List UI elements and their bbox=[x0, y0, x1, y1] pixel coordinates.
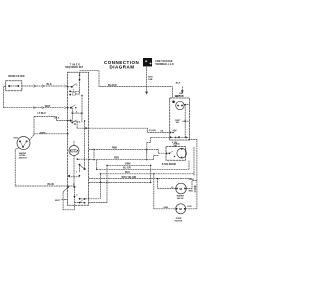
svg-text:3 ORN: 3 ORN bbox=[195, 185, 197, 192]
svg-text:1 BLK: 1 BLK bbox=[54, 118, 60, 120]
svg-text:BL-GR: BL-GR bbox=[123, 167, 131, 170]
timer interior: top contact cluster bbox=[67, 72, 81, 121]
wire band L4 BL-GR bbox=[97, 161, 189, 170]
svg-text:BLUE: BLUE bbox=[48, 183, 55, 186]
motor box right edge extension bbox=[193, 147, 195, 176]
svg-text:RED: RED bbox=[189, 191, 194, 193]
svg-text:WHT: WHT bbox=[55, 200, 61, 202]
wire A exit (timer to motor box upper) bbox=[77, 127, 92, 129]
wire band L6 WT3-YEL/OR bbox=[89, 176, 192, 179]
svg-text:GY/OR: GY/OR bbox=[149, 130, 156, 132]
svg-text:TERMINAL L1-N: TERMINAL L1-N bbox=[155, 63, 174, 66]
timer bottom contact cluster bbox=[63, 184, 86, 210]
ground lead wire from terminal block bbox=[145, 67, 153, 95]
timer bottom exits to right bbox=[86, 199, 108, 203]
svg-text:LT-BLU: LT-BLU bbox=[38, 112, 47, 115]
svg-text:WHT: WHT bbox=[189, 179, 195, 181]
wire band L3 ORN bbox=[107, 163, 151, 166]
svg-text:RED: RED bbox=[114, 157, 119, 160]
svg-text:BLU: BLU bbox=[125, 171, 130, 174]
svg-text:BLK: BLK bbox=[47, 83, 52, 86]
motor box bbox=[160, 95, 197, 209]
timer motor bbox=[69, 141, 79, 187]
timer interior: WHT input contact bbox=[68, 105, 77, 109]
svg-text:DIAGRAM: DIAGRAM bbox=[110, 65, 135, 70]
solenoid coil circle bbox=[177, 148, 187, 158]
pump motor circle bbox=[154, 204, 197, 223]
svg-text:SEQUENCE SET: SEQUENCE SET bbox=[65, 67, 84, 69]
wire BLACK from timer top to motor box bbox=[80, 71, 173, 98]
timer interior: middle cluster bbox=[68, 108, 83, 129]
svg-text:MOTOR: MOTOR bbox=[175, 95, 184, 98]
water level switch bbox=[13, 137, 30, 160]
band jumper verticals bbox=[93, 149, 158, 209]
wire WHT loop from filter left side bbox=[3, 87, 66, 110]
timer box bbox=[68, 72, 89, 205]
water valve solenoid circle bbox=[157, 179, 197, 200]
svg-text:CAB: CAB bbox=[148, 78, 153, 81]
solenoid assembly labels bbox=[173, 142, 181, 147]
svg-text:MOTOR: MOTOR bbox=[70, 152, 78, 154]
timer interior: lower contacts bbox=[68, 95, 91, 177]
wire BLK from filter to timer bbox=[22, 83, 68, 87]
timer label bbox=[65, 65, 84, 70]
wire band L1 PNK bbox=[89, 147, 159, 161]
LT-BLU wire from water level sw bbox=[34, 112, 68, 136]
svg-text:BLACK: BLACK bbox=[108, 84, 117, 87]
terminal block (black box) bbox=[143, 58, 152, 66]
wire band L5 BLU bbox=[100, 171, 194, 174]
wire band L7 bbox=[89, 181, 151, 183]
svg-text:WHT: WHT bbox=[45, 105, 51, 108]
svg-text:PNK: PNK bbox=[112, 147, 117, 150]
solenoid feed jogs bbox=[154, 149, 165, 159]
svg-text:NOISE FILTER: NOISE FILTER bbox=[8, 75, 25, 78]
water level switch wire to timer bbox=[29, 132, 68, 141]
wire from water level sw down and along bottom bbox=[15, 148, 74, 186]
wire A jog into motor box bbox=[92, 128, 170, 132]
svg-text:BLK: BLK bbox=[176, 83, 181, 85]
wire band L2 RED bbox=[89, 157, 154, 160]
noise filter box bbox=[6, 81, 22, 91]
wire WHT stub left of timer bottom bbox=[55, 200, 68, 202]
svg-text:SW: SW bbox=[176, 122, 179, 124]
wire B into motor box bbox=[147, 137, 170, 154]
title CONNECTION DIAGRAM bbox=[104, 60, 139, 69]
svg-text:SWITCH: SWITCH bbox=[19, 158, 28, 160]
solenoid assembly box bbox=[166, 147, 187, 161]
label: line voltage note bbox=[155, 60, 174, 66]
svg-text:4GRN: 4GRN bbox=[40, 132, 46, 135]
motor start winding circle bbox=[176, 101, 184, 109]
svg-text:1M: 1M bbox=[160, 131, 163, 133]
svg-text:GYR: GYR bbox=[187, 206, 192, 208]
svg-text:GRN: GRN bbox=[163, 207, 168, 209]
svg-text:MOTOR: MOTOR bbox=[175, 220, 183, 222]
svg-text:VALVE: VALVE bbox=[177, 197, 184, 200]
labels above motor box bbox=[175, 83, 184, 99]
svg-text:ORN: ORN bbox=[125, 163, 131, 166]
svg-text:WT3-YEL/OR: WT3-YEL/OR bbox=[122, 176, 137, 179]
svg-text:B SOLENOID: B SOLENOID bbox=[162, 164, 177, 166]
